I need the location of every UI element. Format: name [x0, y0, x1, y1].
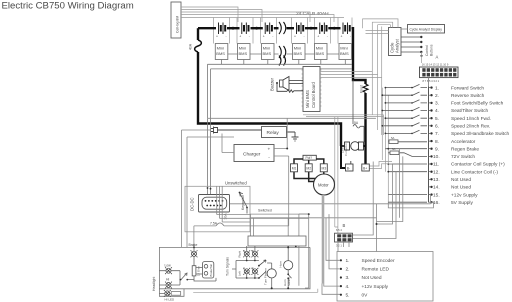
svg-text:Mini: Mini — [263, 46, 270, 51]
svg-text:7.: 7. — [435, 131, 439, 137]
svg-text:10.: 10. — [433, 154, 440, 160]
svg-text:5V Supply: 5V Supply — [451, 200, 473, 206]
svg-text:DC-DC: DC-DC — [190, 198, 195, 212]
svg-text:B+: B+ — [363, 167, 367, 171]
svg-text:Horn: Horn — [279, 261, 283, 268]
svg-text:Not Used: Not Used — [451, 177, 471, 183]
svg-text:3 2 1: 3 2 1 — [336, 244, 342, 248]
svg-text:+: + — [341, 35, 343, 39]
svg-text:16.: 16. — [433, 200, 440, 206]
svg-text:BMS: BMS — [216, 51, 225, 56]
svg-text:40A: 40A — [189, 43, 193, 50]
svg-text:Unswitched: Unswitched — [225, 180, 247, 185]
svg-text:Speed 2/Inch Rev.: Speed 2/Inch Rev. — [451, 124, 490, 130]
svg-text:BMS: BMS — [294, 51, 303, 56]
svg-text:Mini: Mini — [316, 46, 323, 51]
svg-text:Foot Switch/Belly Switch: Foot Switch/Belly Switch — [451, 101, 504, 107]
svg-text:Mini BMS: Mini BMS — [305, 90, 310, 108]
svg-text:Control Board: Control Board — [311, 81, 316, 108]
svg-text:Speed 1/Inch Fwd.: Speed 1/Inch Fwd. — [451, 116, 491, 122]
svg-text:Cell-log 8M: Cell-log 8M — [176, 16, 180, 33]
svg-text:16 15 14 13 12 11 10 9: 16 15 14 13 12 11 10 9 — [422, 63, 449, 67]
svg-text:M1: M1 — [292, 166, 297, 170]
svg-text:M3: M3 — [322, 166, 327, 170]
svg-text:BMS: BMS — [263, 51, 272, 56]
svg-text:5A: 5A — [392, 147, 396, 151]
svg-text:+12v Supply: +12v Supply — [362, 284, 389, 290]
svg-text:Electric CB750 Wiring Diagram: Electric CB750 Wiring Diagram — [2, 1, 134, 12]
svg-text:BMS: BMS — [239, 51, 248, 56]
svg-text:11.: 11. — [433, 162, 439, 168]
svg-text:15 Ohm: 15 Ohm — [197, 265, 201, 276]
svg-text:Charger: Charger — [243, 152, 261, 158]
svg-text:Switched: Switched — [258, 209, 272, 213]
svg-text:5A: 5A — [354, 121, 359, 125]
svg-text:8.: 8. — [435, 139, 439, 145]
svg-text:Motor: Motor — [318, 182, 329, 187]
svg-text:Keyswitch: Keyswitch — [241, 195, 245, 210]
svg-text:6.: 6. — [435, 124, 439, 130]
svg-text:3.: 3. — [346, 275, 350, 281]
svg-text:R: R — [252, 249, 254, 253]
svg-text:Remote LED: Remote LED — [362, 267, 390, 273]
svg-text:Forward Switch: Forward Switch — [451, 85, 484, 91]
svg-text:Control: Control — [425, 45, 429, 56]
svg-text:Not Used: Not Used — [451, 185, 471, 191]
svg-text:Accelerator: Accelerator — [451, 139, 476, 145]
svg-text:5A: 5A — [391, 136, 395, 140]
svg-text:Brake: Brake — [189, 243, 198, 247]
svg-text:HI LED: HI LED — [165, 298, 176, 302]
svg-text:-: - — [350, 35, 351, 39]
svg-text:Speed 3/Handbrake Switch: Speed 3/Handbrake Switch — [451, 131, 509, 137]
svg-text:-: - — [304, 35, 305, 39]
svg-text:Front: Front — [360, 85, 364, 93]
svg-text:Line Contactor Coil (-): Line Contactor Coil (-) — [451, 169, 498, 175]
svg-text:2.: 2. — [435, 93, 439, 99]
svg-text:+: + — [263, 35, 265, 39]
svg-text:Mini: Mini — [217, 46, 224, 51]
svg-text:13.: 13. — [433, 177, 440, 183]
svg-text:Turn Signals: Turn Signals — [226, 257, 230, 276]
svg-text:+: + — [317, 35, 319, 39]
svg-text:B-: B- — [347, 167, 350, 171]
svg-text:+: + — [216, 35, 218, 39]
svg-text:Headlight: Headlight — [152, 277, 156, 291]
svg-text:+: + — [268, 148, 271, 153]
svg-text:A: A — [436, 55, 439, 60]
svg-text:Low: Low — [165, 263, 172, 267]
svg-text:R: R — [252, 267, 254, 271]
svg-text:9.: 9. — [435, 146, 439, 152]
svg-text:6 5 4: 6 5 4 — [336, 228, 342, 232]
svg-text:+: + — [294, 35, 296, 39]
svg-text:Seat/Tilter Switch: Seat/Tilter Switch — [451, 108, 488, 114]
svg-text:15.: 15. — [433, 192, 440, 198]
svg-text:14.: 14. — [433, 185, 440, 191]
svg-text:Relay: Relay — [267, 130, 280, 136]
svg-text:4.: 4. — [346, 284, 350, 290]
svg-text:BMS: BMS — [316, 51, 325, 56]
svg-text:Right: Right — [238, 251, 242, 258]
svg-text:-: - — [272, 35, 273, 39]
svg-text:Pot?: Pot? — [306, 156, 313, 160]
svg-text:Contactor: Contactor — [344, 143, 348, 156]
svg-text:Reverse Switch: Reverse Switch — [451, 93, 485, 99]
svg-text:1.: 1. — [435, 85, 439, 91]
svg-text:3.: 3. — [435, 101, 439, 107]
svg-text:1.: 1. — [346, 258, 350, 264]
svg-text:12.: 12. — [433, 169, 440, 175]
svg-text:Speed Encoder: Speed Encoder — [362, 258, 395, 264]
svg-text:-: - — [249, 35, 250, 39]
svg-text:+: + — [239, 35, 241, 39]
svg-text:Brake/Tail: Brake/Tail — [209, 264, 213, 277]
svg-text:8 7 6 5 4 3 2 1: 8 7 6 5 4 3 2 1 — [423, 79, 440, 83]
svg-text:72V Switch: 72V Switch — [451, 154, 475, 160]
svg-text:Mini: Mini — [340, 46, 347, 51]
svg-text:Mini: Mini — [294, 46, 301, 51]
svg-text:Buzzer: Buzzer — [270, 77, 275, 91]
svg-text:7.5A: 7.5A — [210, 222, 218, 226]
svg-text:Contactor Coil Supply (+): Contactor Coil Supply (+) — [451, 162, 505, 168]
svg-text:5.: 5. — [435, 116, 439, 122]
svg-text:2.: 2. — [346, 267, 350, 273]
svg-text:Mini: Mini — [239, 46, 246, 51]
svg-text:Cycle Analyst Display: Cycle Analyst Display — [410, 28, 443, 32]
svg-text:Turn Flasher: Turn Flasher — [264, 268, 268, 285]
svg-text:+12v Supply: +12v Supply — [451, 192, 478, 198]
svg-text:-: - — [327, 35, 328, 39]
svg-text:Hi: Hi — [166, 277, 169, 281]
svg-text:0V: 0V — [362, 292, 369, 298]
svg-text:4.: 4. — [435, 108, 439, 114]
svg-text:Not Used: Not Used — [362, 275, 382, 281]
svg-text:-: - — [226, 35, 227, 39]
svg-text:M2: M2 — [306, 166, 311, 170]
svg-text:Buttons: Buttons — [430, 44, 434, 56]
svg-text:B: B — [343, 223, 346, 228]
svg-text:Analyst: Analyst — [395, 38, 400, 53]
svg-text:5.: 5. — [346, 292, 350, 298]
svg-text:BMS: BMS — [340, 51, 349, 56]
svg-text:Left: Left — [238, 271, 242, 276]
svg-text:Regen Brake: Regen Brake — [451, 146, 479, 152]
